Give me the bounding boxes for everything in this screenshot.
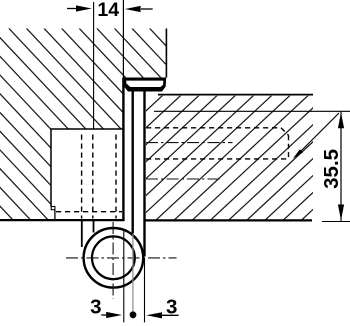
svg-text:14: 14 [97,0,119,21]
svg-text:3: 3 [90,295,101,318]
svg-text:35.5: 35.5 [320,149,343,189]
svg-text:3: 3 [166,295,177,318]
